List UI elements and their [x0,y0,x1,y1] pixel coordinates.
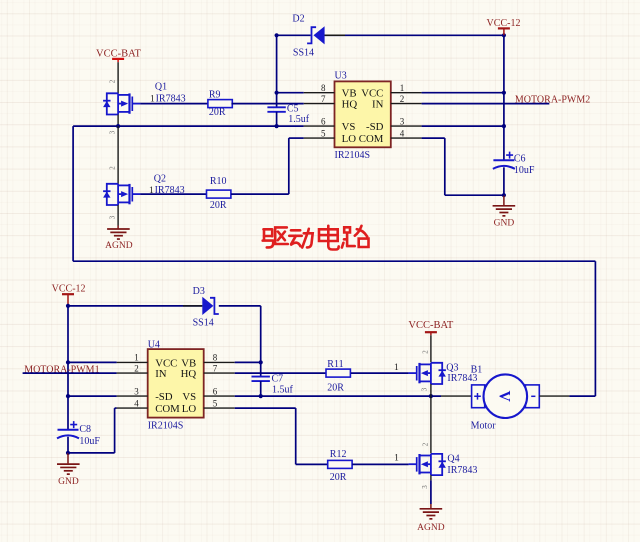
svg-text:1: 1 [400,83,405,93]
svg-text:3: 3 [420,387,428,391]
svg-text:7: 7 [213,363,218,373]
svg-text:3: 3 [400,116,405,126]
svg-text:HQ: HQ [181,368,197,380]
svg-text:LO: LO [182,403,197,415]
svg-text:1: 1 [394,363,399,373]
svg-text:7: 7 [321,94,326,104]
svg-text:GND: GND [494,219,515,229]
svg-text:C7: C7 [272,373,284,384]
svg-text:3: 3 [109,130,117,134]
svg-text:-SD: -SD [366,121,384,133]
svg-text:GND: GND [58,477,79,487]
svg-text:IR7843: IR7843 [156,93,186,104]
svg-text:Q4: Q4 [447,454,459,465]
svg-text:2: 2 [109,166,117,170]
svg-text:R12: R12 [330,449,347,460]
svg-text:Motor: Motor [471,421,497,432]
svg-text:HQ: HQ [342,99,358,111]
svg-text:SS14: SS14 [193,318,214,329]
svg-text:20R: 20R [210,200,227,211]
svg-text:3: 3 [421,485,429,489]
svg-text:Q3: Q3 [446,362,458,373]
svg-text:VS: VS [342,121,356,133]
svg-text:1: 1 [134,353,139,363]
svg-text:VCC-12: VCC-12 [52,284,86,295]
svg-text:C8: C8 [79,424,91,435]
svg-text:1.5uf: 1.5uf [288,114,310,125]
svg-text:B1: B1 [471,364,483,375]
svg-text:1.5uf: 1.5uf [272,384,294,395]
svg-text:20R: 20R [327,383,344,394]
svg-text:8: 8 [321,83,326,93]
svg-text:LO: LO [342,133,357,145]
svg-text:20R: 20R [330,472,347,483]
svg-text:IR2104S: IR2104S [148,420,184,431]
svg-text:IR7843: IR7843 [447,465,477,476]
svg-text:2: 2 [421,442,429,446]
svg-text:1: 1 [394,453,399,463]
svg-text:Q1: Q1 [155,81,167,92]
svg-text:-SD: -SD [155,391,173,403]
svg-text:R11: R11 [327,359,343,370]
svg-text:U3: U3 [335,70,347,81]
svg-text:8: 8 [213,353,218,363]
svg-text:20R: 20R [209,107,226,118]
svg-text:COM: COM [155,403,180,415]
svg-text:D2: D2 [292,13,304,24]
svg-text:MOTORA-PWM2: MOTORA-PWM2 [515,95,590,106]
svg-text:R10: R10 [210,176,227,187]
svg-text:IN: IN [372,99,384,111]
svg-text:R9: R9 [209,90,221,101]
svg-text:10uF: 10uF [79,436,100,447]
svg-text:3: 3 [134,386,139,396]
svg-text:2: 2 [421,350,429,354]
svg-text:C5: C5 [287,103,299,114]
svg-text:4: 4 [400,128,405,138]
svg-text:6: 6 [321,116,326,126]
svg-text:2: 2 [400,94,405,104]
svg-text:6: 6 [213,386,218,396]
svg-text:4: 4 [134,398,139,408]
svg-text:IN: IN [155,368,167,380]
svg-text:5: 5 [321,128,326,138]
svg-text:2: 2 [134,363,139,373]
svg-text:10uF: 10uF [514,165,535,176]
svg-text:U4: U4 [148,339,160,350]
svg-text:V: V [496,391,513,403]
svg-text:VCC-12: VCC-12 [487,18,521,29]
svg-text:2: 2 [109,79,117,83]
svg-text:3: 3 [109,215,117,219]
svg-text:D3: D3 [193,286,205,297]
svg-text:SS14: SS14 [293,48,314,59]
svg-text:VCC-BAT: VCC-BAT [408,320,454,331]
svg-text:COM: COM [359,133,384,145]
svg-text:Q2: Q2 [154,174,166,185]
svg-text:VS: VS [182,391,196,403]
svg-text:5: 5 [213,398,218,408]
svg-text:AGND: AGND [105,241,133,251]
svg-text:IR2104S: IR2104S [335,150,371,161]
svg-text:C6: C6 [514,153,526,164]
svg-text:AGND: AGND [417,523,445,533]
